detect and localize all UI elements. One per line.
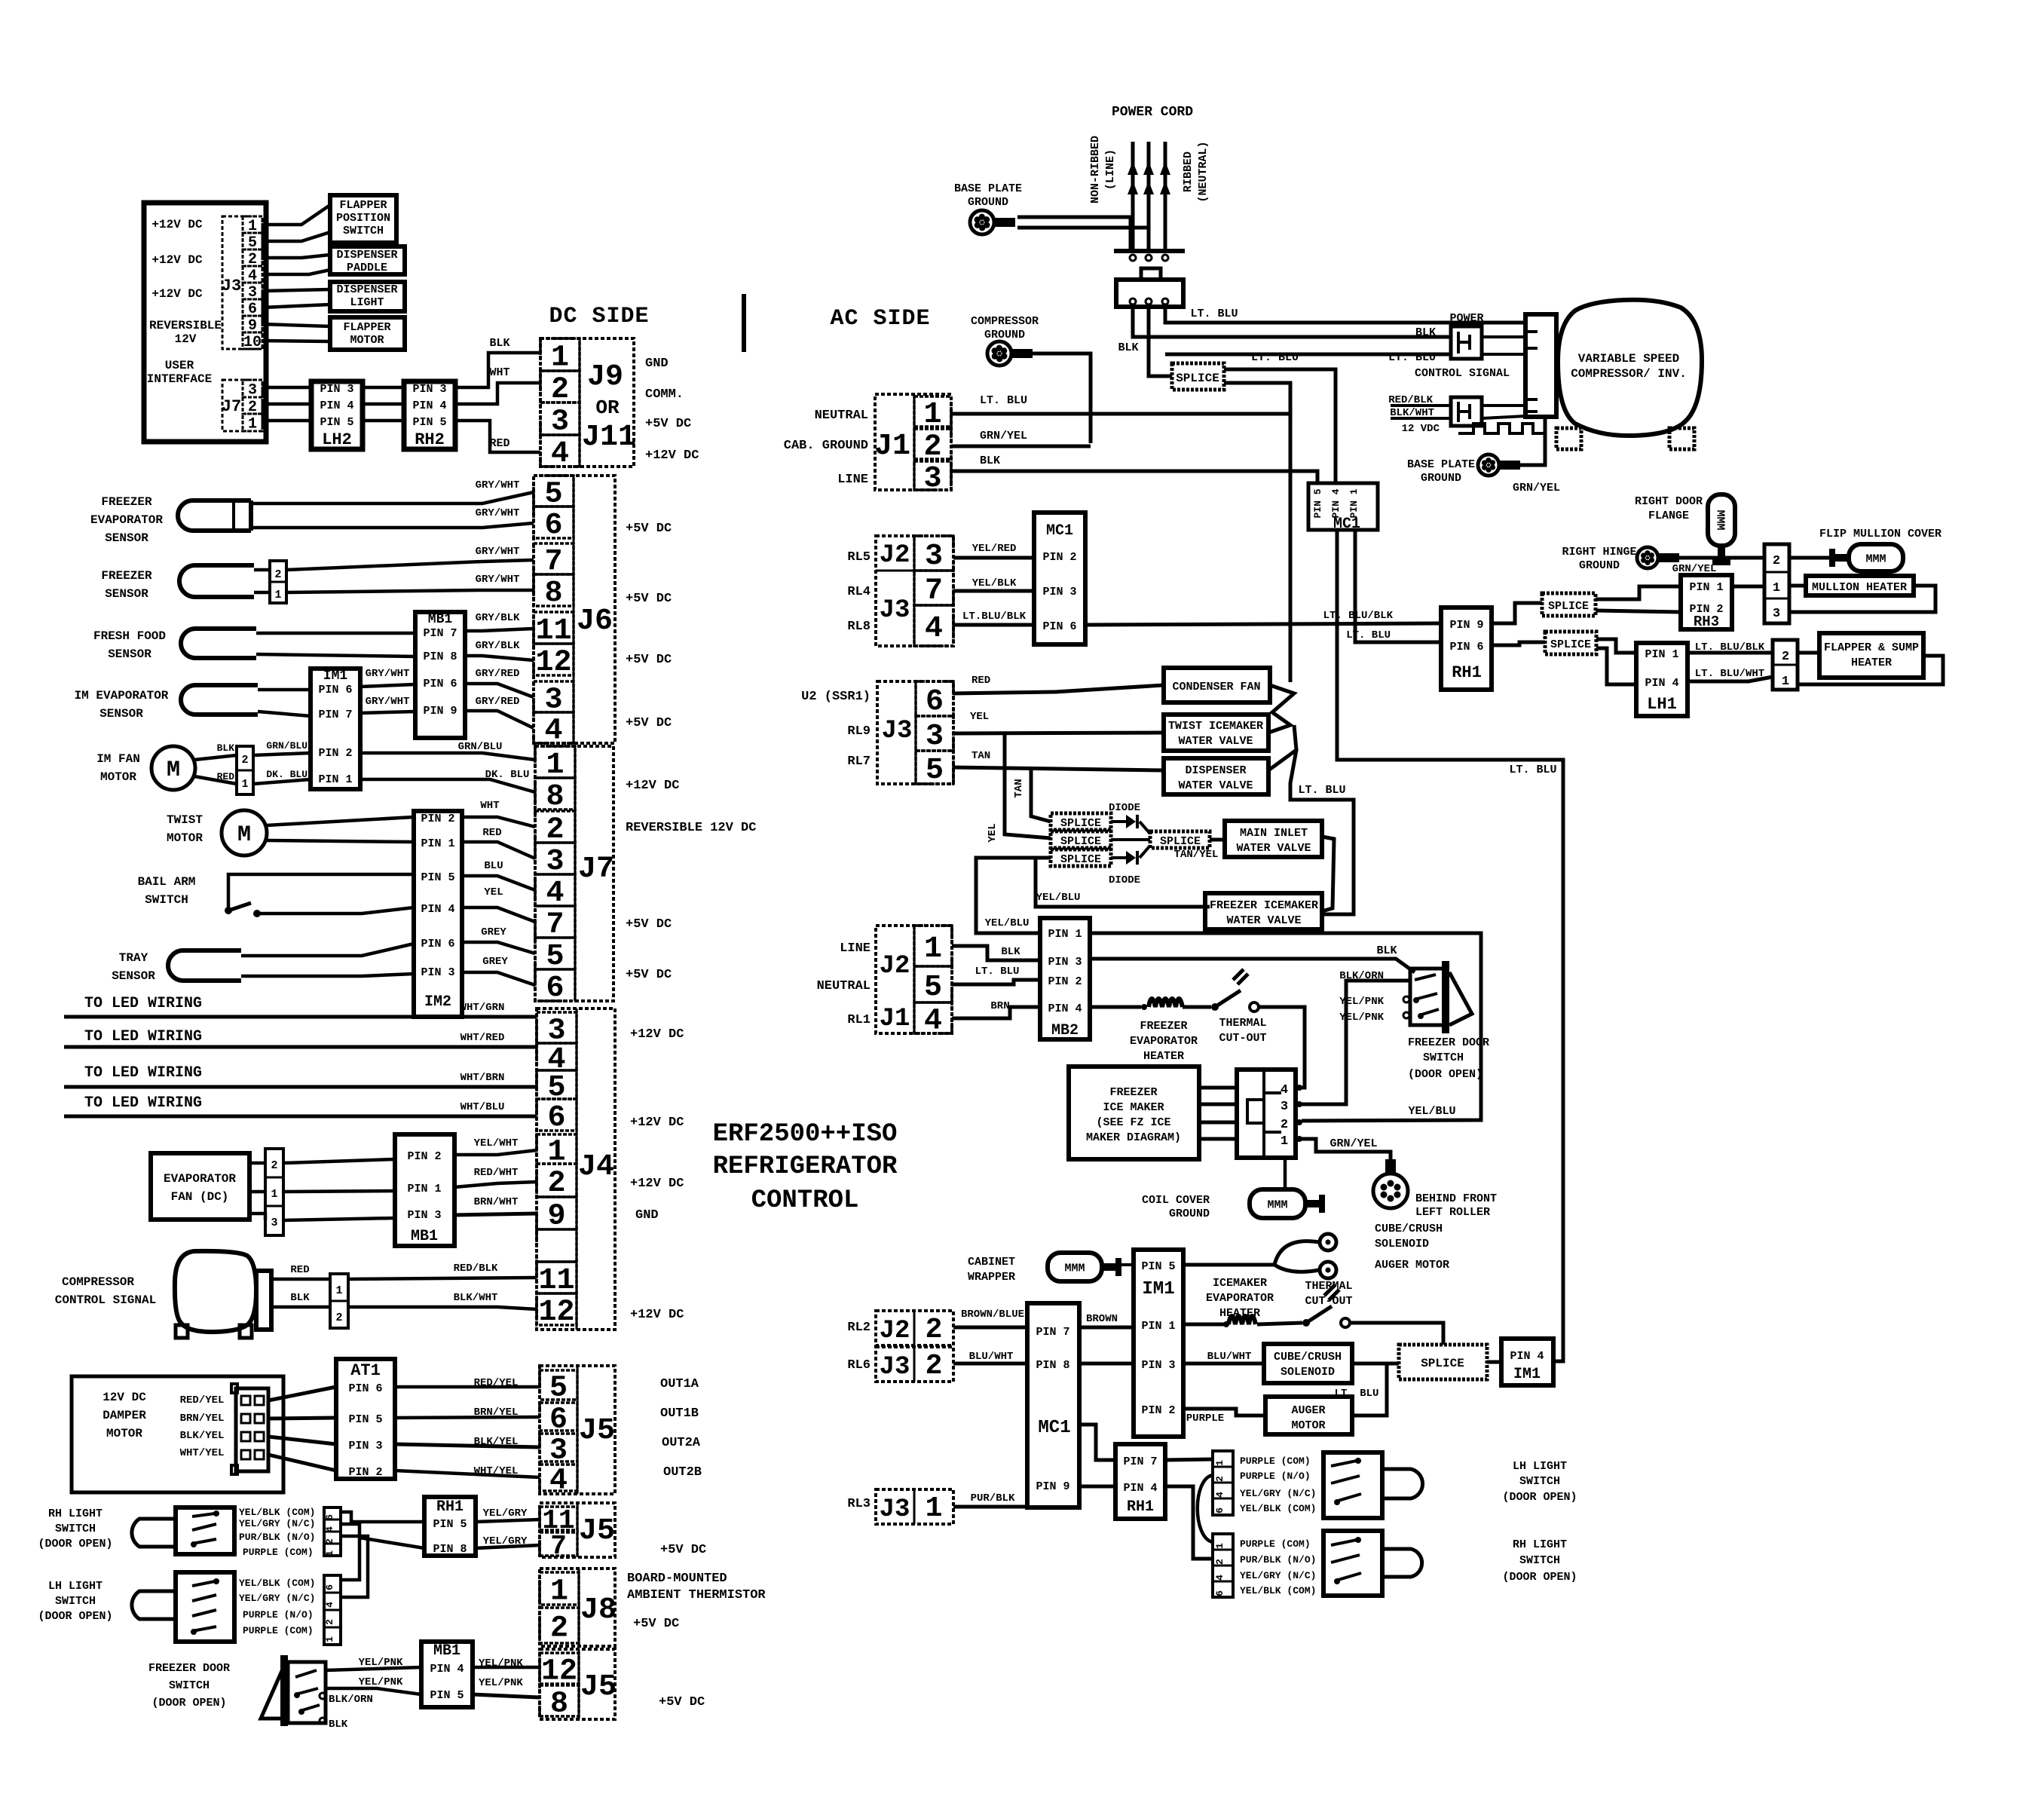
svg-text:12: 12 [538, 1296, 574, 1330]
svg-text:CONTROL SIGNAL: CONTROL SIGNAL [1415, 367, 1510, 380]
svg-text:LT. BLU: LT. BLU [1298, 784, 1345, 797]
svg-text:ICEMAKER: ICEMAKER [1213, 1277, 1267, 1290]
svg-text:SPLICE: SPLICE [1548, 600, 1589, 613]
svg-text:YEL/GRY (N/C): YEL/GRY (N/C) [1240, 1570, 1316, 1581]
svg-text:GRN/YEL: GRN/YEL [1330, 1137, 1377, 1150]
svg-text:6: 6 [549, 1403, 568, 1437]
svg-text:REFRIGERATOR: REFRIGERATOR [713, 1152, 898, 1181]
svg-text:LT. BLU: LT. BLU [1251, 351, 1299, 364]
svg-text:6: 6 [926, 685, 944, 719]
svg-text:PIN 7: PIN 7 [423, 627, 457, 640]
svg-text:1: 1 [335, 1284, 342, 1297]
RH light switch connector 6/4/2/1 [324, 1507, 341, 1556]
svg-text:BLK: BLK [217, 742, 235, 754]
svg-text:GRN/BLU: GRN/BLU [266, 740, 308, 751]
svg-text:(DOOR OPEN): (DOOR OPEN) [1502, 1491, 1577, 1504]
svg-text:FREEZER: FREEZER [1109, 1086, 1157, 1099]
svg-text:6: 6 [546, 972, 564, 1005]
svg-text:8: 8 [544, 577, 562, 611]
svg-text:RIGHT DOOR: RIGHT DOOR [1635, 495, 1703, 508]
svg-text:2: 2 [923, 430, 941, 464]
svg-text:PIN 5: PIN 5 [1312, 488, 1323, 518]
svg-text:BLK/YEL: BLK/YEL [180, 1430, 225, 1442]
svg-text:YEL/BLK (COM): YEL/BLK (COM) [1240, 1585, 1316, 1596]
svg-text:WHT: WHT [480, 800, 499, 812]
svg-text:LT. BLU/BLK: LT. BLU/BLK [1323, 610, 1394, 622]
svg-text:POWER: POWER [1449, 312, 1483, 325]
svg-text:RIGHT HINGE: RIGHT HINGE [1562, 546, 1636, 559]
svg-text:PIN 1: PIN 1 [407, 1183, 441, 1195]
wires tray sensor to IM2 [241, 944, 414, 956]
wire J3-6 to dispenser light [262, 305, 330, 308]
svg-text:+12V DC: +12V DC [645, 448, 699, 463]
connector IM1 (AC) [1134, 1250, 1183, 1437]
svg-text:SWITCH: SWITCH [1519, 1554, 1560, 1567]
connector RH1 (left) [424, 1497, 476, 1556]
connector J7 (user interface) [222, 380, 262, 431]
RH switch connector strip [1213, 1534, 1233, 1597]
svg-text:AC SIDE: AC SIDE [830, 306, 930, 332]
svg-text:SPLICE: SPLICE [1176, 372, 1219, 385]
svg-text:REVERSIBLE 12V DC: REVERSIBLE 12V DC [626, 821, 756, 835]
svg-text:PIN 3: PIN 3 [348, 1440, 382, 1452]
svg-text:7: 7 [550, 1531, 567, 1562]
svg-text:NEUTRAL: NEUTRAL [817, 979, 871, 993]
svg-text:YEL/WHT: YEL/WHT [474, 1137, 519, 1149]
svg-text:OR: OR [595, 396, 620, 419]
LH light switch connector 6/4/2/1 [324, 1575, 341, 1645]
wire main inlet return loop [1322, 837, 1334, 911]
svg-text:J3: J3 [880, 1353, 910, 1382]
connector J6 [534, 476, 615, 743]
svg-text:PIN 6: PIN 6 [318, 684, 352, 696]
svg-text:RH1: RH1 [1127, 1498, 1154, 1516]
svg-text:FAN (DC): FAN (DC) [171, 1190, 229, 1204]
mullion connector 2/1/3 [1764, 544, 1789, 623]
svg-text:12 VDC: 12 VDC [1402, 423, 1440, 435]
svg-text:MOTOR: MOTOR [350, 334, 384, 347]
svg-text:PURPLE (COM): PURPLE (COM) [1240, 1455, 1311, 1467]
svg-text:(DOOR OPEN): (DOOR OPEN) [1502, 1571, 1577, 1584]
svg-text:1: 1 [324, 1550, 335, 1556]
svg-text:PIN 4: PIN 4 [1510, 1350, 1544, 1363]
wire cutout to icemaker connector 4 [1259, 1007, 1305, 1088]
svg-text:PIN 4: PIN 4 [430, 1663, 464, 1676]
svg-text:+5V DC: +5V DC [626, 592, 672, 606]
svg-text:LEFT ROLLER: LEFT ROLLER [1415, 1206, 1490, 1219]
svg-text:1: 1 [324, 1636, 335, 1642]
svg-text:BRN: BRN [990, 1000, 1009, 1012]
svg-text:CUBE/CRUSH: CUBE/CRUSH [1274, 1351, 1342, 1364]
svg-text:CAB. GROUND: CAB. GROUND [784, 439, 868, 453]
svg-text:GRY/BLK: GRY/BLK [476, 640, 520, 652]
svg-text:SENSOR: SENSOR [108, 647, 151, 661]
svg-text:2: 2 [271, 1159, 277, 1172]
svg-text:EVAPORATOR: EVAPORATOR [164, 1172, 236, 1186]
svg-text:COMM.: COMM. [645, 387, 684, 402]
svg-text:RIBBED: RIBBED [1182, 152, 1195, 192]
wire splice2 to splice4 [1111, 838, 1150, 841]
svg-text:BLK/ORN: BLK/ORN [329, 1694, 373, 1706]
svg-text:PUR/BLK: PUR/BLK [971, 1492, 1015, 1504]
svg-text:MAIN INLET: MAIN INLET [1240, 827, 1308, 840]
svg-text:TAN: TAN [972, 750, 990, 762]
svg-text:J7: J7 [222, 397, 241, 416]
svg-text:TO LED WIRING: TO LED WIRING [84, 1064, 202, 1082]
svg-text:J5: J5 [580, 1670, 617, 1704]
connector MC1 (top) [1308, 483, 1378, 530]
svg-text:BOARD-MOUNTED: BOARD-MOUNTED [627, 1572, 727, 1586]
svg-text:GRN/YEL: GRN/YEL [1672, 563, 1717, 575]
svg-text:GREY: GREY [481, 926, 506, 938]
svg-text:SOLENOID: SOLENOID [1281, 1366, 1335, 1379]
strip interconnect wire [1198, 1475, 1213, 1542]
svg-text:7: 7 [925, 574, 943, 608]
svg-text:CONTROL SIGNAL: CONTROL SIGNAL [55, 1293, 156, 1307]
svg-text:+5V DC: +5V DC [645, 417, 691, 431]
svg-text:LT. BLU: LT. BLU [1509, 764, 1556, 776]
svg-text:J7: J7 [578, 852, 614, 886]
dispenser water valve [1164, 758, 1268, 794]
svg-text:WHT: WHT [489, 366, 509, 379]
svg-text:ERF2500++ISO: ERF2500++ISO [713, 1120, 898, 1149]
svg-text:LH2: LH2 [322, 430, 352, 449]
svg-text:CUT-OUT: CUT-OUT [1305, 1295, 1352, 1308]
svg-text:AT1: AT1 [350, 1361, 381, 1380]
svg-text:LINE: LINE [840, 941, 871, 956]
connector J1 [875, 394, 951, 490]
svg-text:WATER VALVE: WATER VALVE [1178, 779, 1253, 792]
svg-text:TAN: TAN [1013, 779, 1025, 797]
svg-text:2: 2 [335, 1312, 342, 1324]
svg-text:DISPENSER: DISPENSER [336, 283, 397, 296]
svg-text:PIN 1: PIN 1 [1689, 581, 1723, 594]
RH light switch (AC) [1323, 1531, 1382, 1596]
svg-text:8: 8 [546, 780, 564, 814]
svg-text:LH1: LH1 [1647, 695, 1677, 714]
svg-text:FLANGE: FLANGE [1648, 510, 1689, 522]
svg-text:RED: RED [482, 827, 501, 839]
svg-text:GRY/WHT: GRY/WHT [476, 507, 520, 519]
svg-text:+12V DC: +12V DC [630, 1177, 684, 1191]
svg-text:SWITCH: SWITCH [55, 1595, 96, 1608]
svg-text:OUT2A: OUT2A [662, 1436, 701, 1450]
svg-text:TWIST: TWIST [167, 813, 203, 827]
wire MB2 pin1 loop to icemaker connector 2 [1090, 933, 1481, 1121]
svg-text:GND: GND [645, 357, 669, 371]
svg-text:TO LED WIRING: TO LED WIRING [84, 995, 202, 1012]
freezer sensor connector 2/1 [270, 561, 286, 603]
wire MC1 to RH1 pin7 [1079, 1425, 1115, 1460]
svg-text:1: 1 [924, 932, 942, 966]
svg-text:MB1: MB1 [411, 1228, 438, 1245]
svg-text:+12V DC: +12V DC [630, 1116, 684, 1130]
svg-text:+12V DC: +12V DC [630, 1027, 684, 1042]
svg-text:PIN 5: PIN 5 [348, 1413, 382, 1426]
svg-text:GRY/RED: GRY/RED [476, 668, 520, 680]
wire J3-5 to flapper position switch [262, 232, 330, 241]
svg-text:WHT/BLU: WHT/BLU [461, 1101, 505, 1113]
svg-text:PIN 4: PIN 4 [1048, 1002, 1082, 1015]
svg-text:LT. BLU: LT. BLU [1190, 308, 1238, 320]
svg-text:USER: USER [165, 359, 194, 372]
svg-text:RL8: RL8 [847, 620, 871, 634]
svg-text:EVAPORATOR: EVAPORATOR [1206, 1292, 1274, 1305]
svg-text:MOTOR: MOTOR [100, 770, 136, 784]
svg-text:YEL/BLU: YEL/BLU [1036, 892, 1081, 904]
svg-text:PIN 1: PIN 1 [1141, 1320, 1175, 1333]
svg-text:GRY/BLK: GRY/BLK [476, 612, 520, 624]
svg-text:MB1: MB1 [433, 1642, 461, 1660]
svg-text:BRN/WHT: BRN/WHT [474, 1196, 519, 1208]
svg-text:YEL: YEL [987, 823, 999, 842]
svg-text:SWITCH: SWITCH [169, 1679, 210, 1692]
wires light switches to RH1 [341, 1512, 424, 1522]
svg-text:2: 2 [1773, 554, 1780, 568]
damper motor connector pins [236, 1388, 268, 1471]
svg-text:DISPENSER: DISPENSER [1185, 764, 1246, 777]
svg-text:RL4: RL4 [847, 585, 871, 599]
svg-text:RED: RED [972, 675, 990, 687]
connector MB1 (sensor board) [415, 612, 465, 738]
svg-text:BASE PLATE: BASE PLATE [1407, 458, 1475, 471]
svg-text:GRY/WHT: GRY/WHT [366, 696, 410, 708]
svg-text:PIN 6: PIN 6 [423, 678, 457, 690]
svg-text:2: 2 [1214, 1476, 1225, 1482]
svg-text:5: 5 [924, 971, 942, 1005]
svg-text:PIN 1: PIN 1 [1645, 648, 1678, 661]
svg-text:FREEZER: FREEZER [101, 569, 152, 583]
svg-text:FREEZER ICEMAKER: FREEZER ICEMAKER [1210, 899, 1318, 912]
svg-text:4: 4 [544, 715, 562, 748]
svg-text:PIN 3: PIN 3 [407, 1209, 441, 1222]
freezer door switch (AC) [1442, 961, 1449, 1033]
svg-text:YEL/GRY (N/C): YEL/GRY (N/C) [239, 1593, 315, 1604]
svg-text:PIN 2: PIN 2 [407, 1150, 441, 1163]
svg-text:GRN/YEL: GRN/YEL [980, 430, 1027, 442]
freezer evaporator heater [1149, 999, 1183, 1007]
svg-text:BLK: BLK [489, 337, 509, 350]
svg-text:1: 1 [274, 589, 281, 601]
svg-text:BROWN: BROWN [1086, 1313, 1118, 1325]
svg-text:COMPRESSOR: COMPRESSOR [971, 315, 1039, 328]
svg-text:MOTOR: MOTOR [1291, 1419, 1325, 1432]
svg-text:YEL/BLK (COM): YEL/BLK (COM) [1240, 1503, 1316, 1514]
svg-text:WHT/RED: WHT/RED [461, 1032, 505, 1044]
svg-text:PIN 2: PIN 2 [1141, 1404, 1175, 1417]
compressor control connector 1/2 [330, 1274, 348, 1328]
svg-text:RH LIGHT: RH LIGHT [1513, 1538, 1567, 1551]
svg-text:(SEE FZ ICE: (SEE FZ ICE [1096, 1116, 1170, 1129]
svg-text:AMBIENT THERMISTOR: AMBIENT THERMISTOR [627, 1588, 766, 1602]
splice (flapper) [1545, 632, 1596, 654]
svg-text:BLU/WHT: BLU/WHT [969, 1351, 1014, 1363]
svg-text:BLU: BLU [484, 860, 503, 872]
wire MC1 pin8 to IM1 pin3 [1079, 1362, 1134, 1366]
svg-text:AUGER MOTOR: AUGER MOTOR [1375, 1259, 1449, 1272]
wires flapper connector to heater [1798, 651, 1819, 655]
svg-text:MOTOR: MOTOR [167, 831, 203, 845]
splice 2 (yel) [1051, 831, 1111, 848]
svg-text:J5: J5 [579, 1414, 615, 1448]
svg-text:PIN 4: PIN 4 [412, 399, 446, 412]
svg-text:1: 1 [1773, 581, 1780, 595]
svg-text:SPLICE: SPLICE [1060, 835, 1101, 848]
svg-text:OUT1B: OUT1B [660, 1406, 699, 1421]
svg-text:IM2: IM2 [424, 993, 451, 1011]
svg-text:CONDENSER FAN: CONDENSER FAN [1172, 681, 1260, 693]
svg-text:BLK: BLK [329, 1719, 348, 1731]
svg-text:SWITCH: SWITCH [1519, 1475, 1560, 1488]
svg-text:PIN 9: PIN 9 [1449, 619, 1483, 632]
svg-text:GROUND: GROUND [968, 196, 1008, 209]
splice (auger/cutout) [1399, 1345, 1487, 1379]
svg-text:M: M [237, 822, 251, 848]
freezer icemaker water valve [1205, 893, 1322, 929]
svg-text:1: 1 [923, 398, 941, 432]
dispenser paddle [330, 246, 405, 274]
svg-text:POWER CORD: POWER CORD [1112, 105, 1193, 120]
connector IM2 [414, 811, 462, 1017]
wires base plate ground to cord [1017, 217, 1131, 249]
connector J8 ambient thermistor [540, 1569, 615, 1646]
svg-text:J9: J9 [587, 360, 623, 394]
svg-text:WRAPPER: WRAPPER [968, 1271, 1015, 1284]
wire BLK/ORN from switch to icemaker connector 3 [1302, 981, 1410, 1104]
lamp behind front left roller [1385, 1159, 1396, 1174]
wire MC1 pin1 to RH1 pin6 [1355, 530, 1441, 642]
svg-text:RL1: RL1 [847, 1013, 871, 1027]
svg-text:GROUND: GROUND [1169, 1207, 1210, 1220]
svg-text:LH LIGHT: LH LIGHT [48, 1580, 103, 1593]
svg-text:PIN 7: PIN 7 [318, 709, 352, 721]
svg-text:4: 4 [1214, 1575, 1225, 1581]
svg-text:PIN 4: PIN 4 [1330, 488, 1342, 518]
svg-text:MC1: MC1 [1046, 522, 1073, 540]
svg-text:PIN 5: PIN 5 [412, 416, 446, 429]
svg-text:2: 2 [1281, 1118, 1288, 1132]
svg-text:BLK: BLK [1376, 944, 1397, 957]
flapper & sump heater [1819, 633, 1923, 678]
svg-text:LT. BLU: LT. BLU [975, 966, 1020, 978]
svg-text:3: 3 [271, 1217, 277, 1229]
svg-text:MC1: MC1 [1038, 1418, 1070, 1438]
wires splice1 to RH3 [1596, 586, 1681, 599]
connector J3 [222, 216, 262, 349]
svg-text:PIN 3: PIN 3 [1042, 586, 1076, 598]
svg-text:GRY/WHT: GRY/WHT [476, 479, 520, 491]
icemaker connector 4/3/2/1 [1237, 1070, 1296, 1158]
neutral chain to valves [1268, 685, 1294, 733]
svg-text:THERMAL: THERMAL [1219, 1017, 1266, 1030]
svg-text:PADDLE: PADDLE [347, 262, 387, 274]
svg-text:3: 3 [1281, 1100, 1288, 1114]
svg-text:FRESH FOOD: FRESH FOOD [93, 629, 166, 643]
svg-text:WATER VALVE: WATER VALVE [1178, 735, 1253, 748]
svg-text:LT.BLU/BLK: LT.BLU/BLK [962, 611, 1027, 623]
svg-text:1: 1 [1214, 1460, 1225, 1466]
svg-text:PIN 3: PIN 3 [1048, 956, 1082, 969]
svg-text:BLK: BLK [290, 1292, 310, 1304]
freezer ice maker box [1069, 1067, 1199, 1159]
wire J3-2 to dispenser paddle [262, 255, 330, 258]
wire fresh food sensor to MB1 pin7/pin8 [256, 632, 415, 635]
svg-text:SPLICE: SPLICE [1060, 853, 1101, 866]
connector RH3 [1681, 575, 1732, 629]
svg-text:J1: J1 [880, 1005, 910, 1033]
splice 3 (yel/blu) [1051, 849, 1111, 866]
svg-text:COMPRESSOR: COMPRESSOR [62, 1275, 134, 1289]
svg-text:CONTROL: CONTROL [751, 1186, 859, 1215]
svg-text:+5V DC: +5V DC [659, 1695, 705, 1709]
connector MB1 (main board, evap fan) [395, 1134, 454, 1246]
svg-text:RH1: RH1 [436, 1498, 464, 1516]
svg-text:RED: RED [489, 437, 509, 450]
svg-text:(LINE): (LINE) [1104, 149, 1117, 190]
svg-text:PIN 6: PIN 6 [348, 1382, 382, 1395]
svg-text:SPLICE: SPLICE [1550, 638, 1591, 651]
svg-text:+5V DC: +5V DC [633, 1617, 679, 1631]
12V DC damper motor [72, 1376, 283, 1492]
svg-text:+12V DC: +12V DC [626, 779, 679, 793]
svg-text:PIN 8: PIN 8 [433, 1543, 467, 1556]
svg-text:RL3: RL3 [847, 1497, 871, 1511]
svg-text:PURPLE (COM): PURPLE (COM) [243, 1625, 314, 1636]
svg-text:LT. BLU: LT. BLU [980, 394, 1027, 407]
svg-text:RL6: RL6 [847, 1358, 871, 1373]
svg-text:POSITION: POSITION [336, 212, 390, 225]
connector IM1 (icemaker) [311, 669, 360, 789]
user interface board [144, 203, 266, 442]
svg-text:SENSOR: SENSOR [105, 531, 148, 545]
svg-text:GRY/RED: GRY/RED [476, 696, 520, 708]
wires twist motor to IM2 [267, 817, 414, 825]
svg-text:2: 2 [926, 1350, 943, 1382]
svg-text:J3: J3 [880, 596, 910, 625]
svg-text:DIODE: DIODE [1109, 802, 1140, 814]
svg-text:GRN/YEL: GRN/YEL [1513, 482, 1560, 494]
connector J7 [535, 746, 614, 1001]
svg-text:J2: J2 [880, 1317, 910, 1345]
LH switch connector strip [1213, 1451, 1233, 1515]
svg-text:2: 2 [274, 568, 281, 581]
svg-text:PIN 5: PIN 5 [421, 871, 454, 884]
evaporator fan (DC) [151, 1153, 249, 1220]
svg-text:LT. BLU: LT. BLU [1335, 1388, 1379, 1400]
svg-text:BROWN/BLUE: BROWN/BLUE [961, 1308, 1024, 1321]
auger motor bullet [1320, 1262, 1336, 1278]
wire RH1 pin6 to splice2 [1492, 642, 1545, 645]
svg-text:M: M [167, 758, 180, 783]
svg-text:SPLICE: SPLICE [1160, 835, 1201, 848]
flapper position switch [330, 195, 396, 243]
wire J3-4 to dispenser paddle [262, 270, 330, 274]
svg-text:YEL: YEL [970, 711, 989, 723]
svg-text:RL5: RL5 [847, 550, 871, 565]
svg-text:PIN 8: PIN 8 [1036, 1359, 1069, 1372]
wire RH1 pin9 to splice1 [1492, 603, 1542, 623]
svg-text:1: 1 [241, 778, 248, 791]
svg-text:WHT/YEL: WHT/YEL [180, 1447, 225, 1459]
wire compressor ground to GRN/YEL net [1033, 354, 1091, 443]
wires ice maker to connector [1199, 1086, 1237, 1090]
thermal cut-out (icemaker) [1302, 1319, 1310, 1327]
svg-text:PIN 3: PIN 3 [1141, 1359, 1175, 1372]
im fan connector 2/1 [237, 746, 253, 794]
svg-text:CABINET: CABINET [968, 1256, 1015, 1269]
svg-text:J3: J3 [880, 1495, 910, 1524]
svg-text:PIN 4: PIN 4 [1645, 677, 1678, 690]
